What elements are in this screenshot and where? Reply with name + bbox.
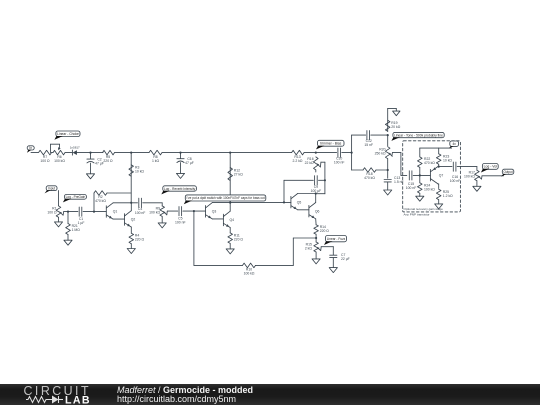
svg-text:C11 µF: C11 µF: [78, 217, 85, 225]
svg-text:R310 kΩ: R310 kΩ: [135, 166, 144, 174]
svg-text:Input: Input: [48, 187, 55, 191]
svg-text:R14220 Ω: R14220 Ω: [320, 225, 330, 233]
svg-text:Linear - Fuzz: Linear - Fuzz: [327, 237, 346, 241]
svg-text:R5220 Ω: R5220 Ω: [103, 155, 113, 163]
svg-text:I've put a dpdt switch with 10: I've put a dpdt switch with 100nF/47nF c…: [187, 196, 265, 200]
svg-text:R81 kΩ: R81 kΩ: [152, 155, 160, 163]
svg-text:C5100 nF: C5100 nF: [175, 216, 186, 224]
svg-text:R7100 Ω: R7100 Ω: [40, 155, 50, 163]
svg-text:In: In: [29, 146, 32, 150]
svg-text:C10100 nF: C10100 nF: [334, 157, 345, 165]
svg-text:R1227 kΩ: R1227 kΩ: [234, 169, 243, 177]
svg-text:Any PNP transistor: Any PNP transistor: [404, 213, 430, 217]
svg-text:C9100 µF: C9100 µF: [311, 185, 322, 193]
svg-text:Log - PreGain: Log - PreGain: [66, 195, 86, 199]
svg-text:R22470 kΩ: R22470 kΩ: [424, 157, 435, 165]
svg-text:C4100 nF: C4100 nF: [135, 207, 146, 215]
svg-text:R17100 kΩ: R17100 kΩ: [464, 171, 475, 179]
svg-text:R4220 Ω: R4220 Ω: [135, 233, 145, 241]
svg-text:R6100 kΩ: R6100 kΩ: [54, 155, 65, 163]
svg-text:Q4: Q4: [230, 218, 235, 222]
svg-text:Log - Vol: Log - Vol: [484, 165, 498, 169]
svg-text:1n5817: 1n5817: [70, 145, 80, 149]
svg-text:Log - Reverb Intensity: Log - Reverb Intensity: [164, 187, 196, 191]
svg-text:C1215 nF: C1215 nF: [364, 139, 373, 147]
svg-text:Linear - Choke: Linear - Choke: [57, 132, 79, 136]
svg-text:Output: Output: [503, 170, 512, 174]
svg-text:Q1: Q1: [113, 210, 118, 214]
svg-text:R152 kΩ: R152 kΩ: [305, 242, 313, 250]
svg-text:Q6: Q6: [315, 209, 320, 213]
svg-text:C722 µF: C722 µF: [341, 253, 350, 261]
svg-text:LAB: LAB: [65, 394, 91, 405]
svg-text:R132.2 kΩ: R132.2 kΩ: [293, 155, 303, 163]
svg-text:R2310 kΩ: R2310 kΩ: [443, 155, 452, 163]
svg-text:R1920 kΩ: R1920 kΩ: [391, 121, 400, 129]
svg-text:C131.5 nF: C131.5 nF: [394, 176, 404, 184]
svg-text:R20250 kΩ: R20250 kΩ: [375, 147, 386, 155]
svg-text:Q2: Q2: [131, 217, 136, 221]
svg-text:C15100 nF: C15100 nF: [406, 182, 417, 190]
svg-text:Q5: Q5: [297, 200, 302, 204]
svg-text:R211 MΩ: R211 MΩ: [72, 224, 81, 232]
svg-text:R10100 kΩ: R10100 kΩ: [244, 268, 255, 276]
svg-text:R2470 kΩ: R2470 kΩ: [95, 195, 106, 203]
svg-text:Linear - Tone - 500k probably: Linear - Tone - 500k probably fine: [394, 133, 443, 137]
svg-text:R251.2 kΩ: R251.2 kΩ: [443, 190, 453, 198]
svg-text:R9100 kΩ: R9100 kΩ: [149, 207, 160, 215]
svg-text:R11220 Ω: R11220 Ω: [234, 234, 244, 242]
svg-text:R18470 kΩ: R18470 kΩ: [364, 172, 375, 180]
svg-text:trimmer - Bias: trimmer - Bias: [320, 142, 341, 146]
svg-text:4v: 4v: [453, 142, 457, 146]
svg-text:C847 µF: C847 µF: [185, 157, 194, 165]
svg-text:Q7: Q7: [439, 173, 444, 177]
svg-text:C16100 nF: C16100 nF: [450, 175, 461, 183]
svg-text:R1622 kΩ: R1622 kΩ: [305, 157, 314, 165]
svg-text:R24100 kΩ: R24100 kΩ: [424, 183, 435, 191]
svg-text:Q3: Q3: [212, 209, 217, 213]
svg-text:R1100 Ω: R1100 Ω: [47, 207, 57, 215]
